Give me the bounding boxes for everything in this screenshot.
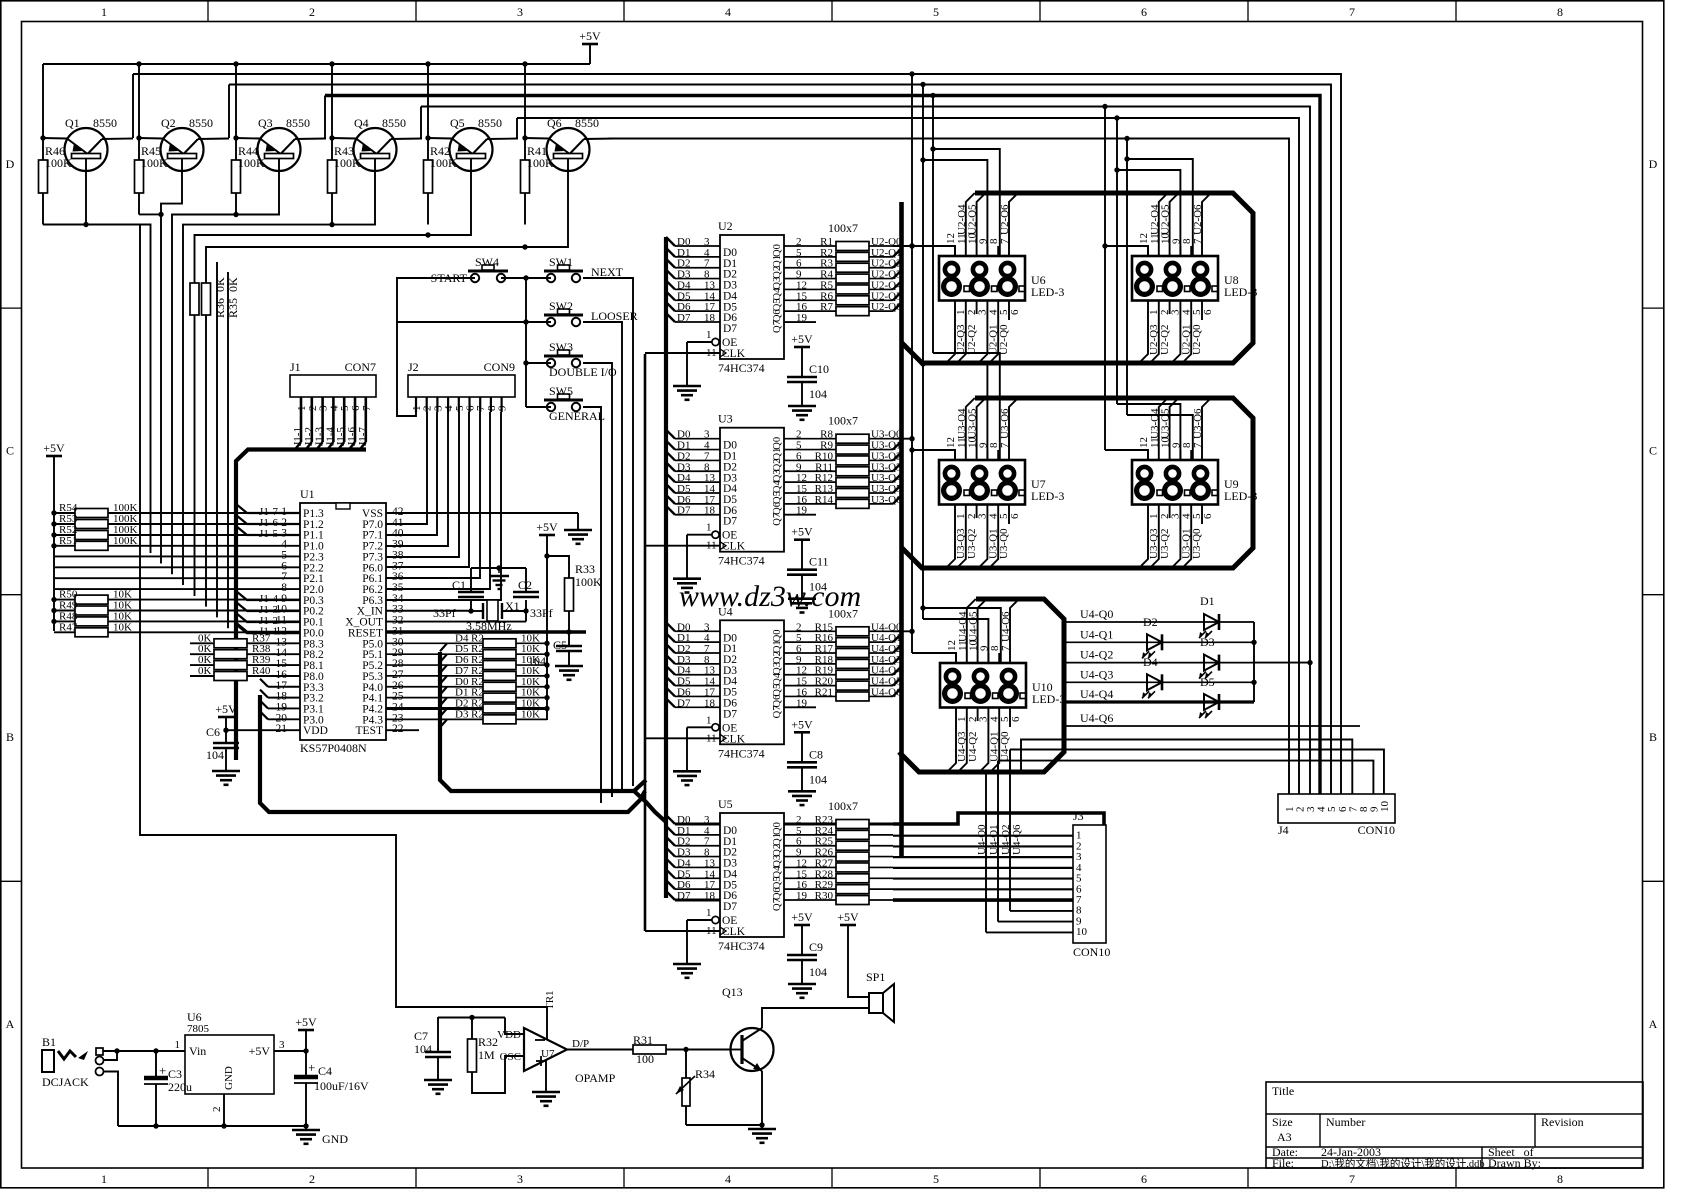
label U6 7805 b (187, 1023, 210, 1035)
IC U1 KS57P0408N body (300, 503, 386, 740)
label U3-Q5 net (871, 483, 902, 495)
wire Q13 collector (762, 1008, 869, 1028)
label U1 (300, 487, 315, 501)
label U3 pin 5 (796, 440, 802, 452)
wire U8 pin7 to ring (1202, 193, 1211, 256)
U5 pin name labels (723, 822, 783, 913)
label D5 (1200, 675, 1215, 689)
svg-text:CON10: CON10 (1358, 823, 1395, 837)
wire U5-Q2 to J3 pin2 (893, 845, 1073, 847)
wire U8 pin4 to ring (1171, 300, 1180, 363)
wire U5 Q7 + resistor R30 100 (784, 896, 893, 905)
wire U10 pin9 feed (923, 619, 988, 663)
resistor R2 10K row D2 (386, 704, 550, 713)
op-amp U7 OPAMP (524, 1028, 567, 1071)
svg-text:J1-5: J1-5 (259, 528, 278, 540)
svg-text:Q7: Q7 (772, 898, 783, 911)
svg-text:2: 2 (211, 1107, 223, 1113)
wire crystal top rail (471, 565, 526, 573)
resistor R35 0K (202, 283, 211, 315)
svg-text:100K: 100K (141, 156, 168, 170)
wire emitter feed Q5 (425, 61, 430, 140)
svg-text:+5V: +5V (837, 910, 859, 924)
pin J2-7 stub (475, 397, 487, 412)
power +5V speaker (837, 910, 869, 997)
label U6 7805 a (187, 1010, 202, 1024)
label 100x7 U3 (828, 414, 858, 428)
label U3 D2 (677, 450, 690, 462)
wire U5 CLK (645, 930, 720, 932)
svg-text:U1: U1 (300, 487, 315, 501)
U9 top pin numbers (1138, 437, 1204, 449)
label U2-Q4 net (871, 279, 902, 291)
wire U3 Q4 + resistor R12 100 (784, 474, 901, 487)
svg-text:C5: C5 (553, 638, 567, 652)
capacitor C4 100uF (294, 1051, 318, 1126)
label 100K R46 (45, 156, 72, 170)
label U5 D3 (677, 847, 691, 859)
svg-text:U2-Q5: U2-Q5 (967, 204, 979, 235)
wire J2 pin7 to U1 (386, 412, 480, 578)
resistor R44 100K (232, 138, 241, 215)
label R50 (59, 589, 78, 601)
svg-text:U4-Q2: U4-Q2 (1000, 824, 1012, 855)
wire U4-Q0 vertical (986, 772, 1073, 932)
label D D7 (455, 665, 469, 677)
wire U9 pin12 stub (1147, 450, 1149, 460)
wire U9 pin2 to ring (1150, 504, 1159, 568)
label U2 pin 18 (704, 312, 716, 324)
label U3 D4 (677, 472, 691, 484)
svg-text:18: 18 (704, 312, 716, 324)
svg-text:11: 11 (706, 347, 717, 359)
svg-text:Q6: Q6 (547, 116, 562, 130)
U8 bottom pin numbers (1148, 309, 1214, 315)
label U2 D7 (677, 312, 691, 324)
svg-text:U2-Q2: U2-Q2 (966, 324, 978, 355)
label U2 pin1 (706, 329, 712, 341)
svg-text:3: 3 (517, 1172, 523, 1186)
label U3 pin 9 (796, 461, 802, 473)
resistor R53 100K (51, 520, 300, 529)
U2 pin name labels (723, 244, 783, 335)
resistor R2 10K row D3 (386, 715, 547, 724)
label U5 pin 3 (704, 814, 710, 826)
svg-text:11: 11 (706, 540, 717, 552)
wire U5 D1 input (666, 826, 720, 835)
label U9 (1224, 477, 1239, 491)
svg-text:CON7: CON7 (345, 360, 376, 374)
label R9 (820, 440, 833, 452)
svg-text:R2: R2 (471, 708, 484, 720)
U8 top pin numbers (1138, 233, 1204, 245)
label U2 D2 (677, 258, 690, 270)
wire X_IN row (386, 610, 468, 612)
label U3 pin 4 (704, 440, 710, 452)
svg-text:Q4: Q4 (772, 865, 783, 879)
pin J1-1 stub (296, 397, 308, 442)
labels U6 bottom nets (955, 324, 1010, 355)
label U5 D6 (677, 879, 691, 891)
bus tap P3 row 4 (260, 690, 300, 698)
label U4 D2 (677, 643, 690, 655)
label U4 D1 (677, 632, 690, 644)
wire Q13 emitter (761, 1071, 763, 1125)
svg-text:Q3: Q3 (258, 116, 273, 130)
wire U10 pin3 stub (977, 707, 979, 721)
label U2 pin 3 (704, 236, 710, 248)
wire U3 Q5 + resistor R13 100 (784, 485, 901, 498)
label U4-Q3 (1080, 667, 1113, 681)
label U4 pin 7 (704, 643, 710, 655)
wire U9 pin1 to ring (1139, 504, 1148, 568)
LED display U10 LED-3 (940, 663, 1026, 708)
wire U9 pin4 to ring (1171, 504, 1180, 568)
svg-text:R14: R14 (815, 494, 834, 506)
label C6 104 (206, 748, 224, 762)
transistor Q5 8550 (428, 128, 518, 171)
wire U4 Q5 + resistor R20 100 (784, 678, 901, 691)
label U2 pin 7 (704, 258, 710, 270)
label U4 pin 6 (796, 643, 802, 655)
svg-text:Title: Title (1272, 1084, 1294, 1098)
svg-text:R21: R21 (815, 686, 833, 698)
capacitor C10 104 (787, 377, 817, 406)
wire U3 D7 input (666, 506, 720, 515)
pin J2-1 stub (411, 397, 423, 412)
wire U4 Q2 + resistor R17 100 (784, 645, 901, 658)
svg-text:NEXT: NEXT (591, 265, 624, 279)
label R43 (334, 144, 354, 158)
wire U5 Q2 + resistor R25 100 (784, 841, 893, 850)
switch SW2 LOOSER (397, 309, 583, 326)
pin J2-3 stub (432, 397, 444, 412)
resistor R2 10K row D0 (386, 682, 550, 691)
svg-text:File:: File: (1272, 1156, 1294, 1170)
label R2 5 (471, 687, 484, 699)
label U2 pin 9 (796, 269, 802, 281)
label Q3 (258, 116, 273, 130)
label 10K 5 (521, 687, 540, 699)
svg-text:GND: GND (223, 1066, 235, 1090)
svg-text:C3: C3 (168, 1067, 182, 1081)
svg-text:U3-Q6: U3-Q6 (999, 408, 1011, 439)
svg-text:D7: D7 (723, 708, 737, 720)
label U3-Q4 net (871, 472, 902, 484)
label R30 (815, 890, 834, 902)
labels U7 bottom nets (955, 528, 1010, 559)
wire U7 pin9 up (986, 450, 988, 460)
svg-text:C11: C11 (809, 555, 829, 569)
svg-text:U2-Q6: U2-Q6 (871, 301, 902, 313)
diode D2 (1142, 634, 1162, 658)
svg-text:U4-Q3: U4-Q3 (1080, 667, 1113, 681)
IC U2 74HC374 body (720, 235, 784, 359)
pin J2-4 stub (443, 397, 455, 412)
wire U3 D4 input (666, 473, 720, 482)
wire Q3 collector riser (324, 96, 326, 139)
label U2 pin 12 (796, 279, 807, 291)
label U4 D5 (677, 676, 691, 688)
label R6 (820, 290, 833, 302)
wire U10 pin1 to ring (947, 707, 956, 772)
svg-text:74HC374: 74HC374 (718, 939, 765, 953)
svg-text:CON10: CON10 (1073, 945, 1110, 959)
svg-text:U4-Q0: U4-Q0 (976, 824, 988, 855)
svg-text:OPAMP: OPAMP (575, 1071, 616, 1085)
wire U8 pin6 stub (1201, 300, 1203, 320)
wire U8 pin1 to ring (1139, 300, 1148, 363)
label J1 (290, 360, 301, 374)
wire U2 D2 input (666, 259, 720, 268)
svg-text:C2: C2 (518, 578, 532, 592)
U9 bottom pin numbers (1148, 513, 1214, 519)
transistor Q13 (731, 1028, 774, 1071)
switch SW4 START (468, 265, 526, 282)
transistor Q3 8550 (236, 128, 326, 171)
wire Q6 base net (206, 159, 568, 607)
label U4-Q2 (1080, 648, 1113, 662)
label 8550 Q1 (93, 116, 117, 130)
label 10K 0 (521, 632, 540, 644)
label LED-3 U10 (1032, 692, 1065, 706)
svg-text:R35 0K: R35 0K (226, 277, 240, 318)
svg-text:+5V: +5V (295, 1015, 317, 1029)
label U5 pin 9 (796, 847, 802, 859)
label 74HC374 U5 (718, 939, 765, 953)
switch SW5 GENERAL (526, 394, 583, 411)
label U4-Q1 v (988, 824, 1000, 855)
svg-text:Q4: Q4 (354, 116, 369, 130)
wire Q1 collector riser (132, 74, 134, 138)
label D2 (1143, 615, 1158, 629)
label U3 D0 (677, 429, 691, 441)
label R14 (815, 494, 834, 506)
wire U6 pin8 up (997, 246, 999, 256)
wire U9 pin8 up (1190, 450, 1192, 460)
wire U6 pin2 to ring (957, 300, 966, 363)
U2 CLK wedge (720, 349, 726, 357)
resistor R33 100K (547, 556, 574, 635)
label pin3 7805 (279, 1039, 285, 1051)
svg-text:C: C (6, 444, 14, 458)
label R12 (815, 472, 833, 484)
label J2 (408, 360, 419, 374)
wire U10 pin12 feed (912, 653, 956, 663)
wire U4 D7 input (666, 698, 720, 707)
label 74HC374 U4 (718, 746, 765, 760)
resistor R2 10K row D5 (386, 650, 550, 659)
wire U6 pin7 to ring (1009, 193, 1018, 256)
wire emitter feed Q6 (522, 61, 527, 140)
power +5V C11 (791, 525, 813, 570)
wire U4-Q1 vertical (998, 761, 1373, 922)
wire U10 pin8 up (998, 653, 1000, 663)
bus tap D bus D6 (440, 665, 447, 673)
wire U7 pin11 to ring (966, 398, 975, 460)
label OE U3 (722, 530, 737, 542)
wire U2 Q0 + resistor R1 100 (784, 242, 915, 251)
U1 left net labels J1-x (259, 506, 278, 638)
svg-text:D: D (6, 157, 15, 171)
wire U5 D7 input (666, 891, 720, 900)
svg-text:1: 1 (101, 5, 107, 19)
svg-text:KS57P0408N: KS57P0408N (300, 741, 367, 755)
wire U5 D0 input (666, 815, 720, 824)
label D D2 (455, 697, 468, 709)
wire feeder x1127 (1124, 136, 1129, 415)
label U4-Q1 (1080, 627, 1113, 641)
bus CLK vertical (644, 354, 647, 931)
connector J3 CON10 (1073, 825, 1106, 943)
label U4 D6 (677, 686, 691, 698)
power +5V C9 (791, 910, 813, 955)
svg-text:4: 4 (725, 5, 731, 19)
watermark www.dz3w.com (679, 580, 861, 613)
wire B1 low pin (104, 1072, 118, 1127)
svg-text:LED-3: LED-3 (1224, 489, 1257, 503)
wire U6 pin3 stub (976, 300, 978, 314)
label U3 pin 18 (704, 505, 716, 517)
label 0K R37 (198, 632, 212, 644)
svg-text:Vin: Vin (189, 1044, 206, 1058)
svg-text:Drawn By:: Drawn By: (1488, 1156, 1541, 1170)
label B1 (42, 1035, 56, 1049)
svg-text:U3-Q6: U3-Q6 (1192, 408, 1204, 439)
wire U3 D0 input (666, 430, 720, 439)
label U4 pin 12 (796, 665, 807, 677)
svg-text:R36 0K: R36 0K (213, 277, 227, 318)
label U3 pin 2 (796, 429, 802, 441)
wire U8 pin3 stub (1169, 300, 1171, 314)
svg-text:18: 18 (704, 505, 716, 517)
wire U5 Q5 + resistor R28 100 (784, 874, 893, 883)
svg-text:U4-Q6: U4-Q6 (1080, 711, 1113, 725)
IC U3 74HC374 body (720, 428, 784, 552)
wire U4-Q6 row (1064, 725, 1360, 727)
label 74HC374 U2 (718, 361, 765, 375)
svg-text:U5: U5 (718, 797, 733, 811)
wire U3 OE (687, 531, 719, 579)
svg-text:6: 6 (1010, 716, 1022, 722)
svg-text:3: 3 (517, 5, 523, 19)
wire U3 Q1 + resistor R9 100 (784, 442, 901, 455)
label pin2 7805 (211, 1107, 223, 1113)
svg-text:18: 18 (704, 890, 716, 902)
wire U7 pin2 to ring (957, 504, 966, 568)
label 100uF/16V C4 (314, 1079, 369, 1093)
label Q13 (722, 985, 743, 999)
wire U6 pin1 to ring (946, 300, 955, 363)
svg-text:U4-Q0: U4-Q0 (1080, 607, 1113, 621)
svg-text:SW3: SW3 (549, 340, 573, 354)
label U4-Q0 (1080, 607, 1113, 621)
label R2 3 (471, 665, 484, 677)
resistor R38 0K (190, 650, 300, 659)
label D D0 (455, 676, 469, 688)
svg-text:U4-Q1: U4-Q1 (988, 824, 1000, 855)
label U3 pin 3 (704, 429, 710, 441)
labels U6 top nets (956, 204, 1011, 235)
resistor R37 0K (190, 639, 300, 648)
wire U4-Q6 vertical to J4 pin7 (1021, 740, 1352, 795)
wire U5-Q3 to J3 pin3 (893, 856, 1073, 858)
wire U7 pin1 to ring (946, 504, 955, 568)
svg-text:100: 100 (636, 1052, 654, 1066)
diode D1 (1199, 614, 1219, 638)
svg-text:100K: 100K (113, 535, 138, 547)
capacitor C2 33Pf (513, 568, 539, 611)
pin J1-3 stub (318, 397, 330, 442)
wire U5-Q0 to J3 top (893, 813, 1104, 825)
svg-text:U3-Q2: U3-Q2 (966, 528, 978, 559)
label R5 (820, 279, 833, 291)
svg-text:2: 2 (309, 1172, 315, 1186)
label U3 pin 13 (704, 472, 716, 484)
label U3 pin 17 (704, 494, 716, 506)
svg-text:100x7: 100x7 (828, 414, 858, 428)
pin J2-6 stub (465, 397, 477, 412)
svg-text:6: 6 (1009, 309, 1021, 315)
label 33Pf C1 (433, 606, 456, 620)
svg-text:100K: 100K (45, 156, 72, 170)
label U5 pin 4 (704, 825, 710, 837)
bus tap D bus D5 (440, 654, 447, 662)
label U4 pin 17 (704, 686, 716, 698)
resistor R50 10K (51, 595, 300, 604)
label R8 (820, 429, 833, 441)
label U5 pin 16 (796, 879, 808, 891)
bus ring display group U7 U9 (902, 398, 1253, 568)
label U5 pin 8 (704, 847, 710, 859)
U3 pin name labels (723, 437, 783, 528)
power +5V R33 (536, 520, 558, 720)
wire VDD row (223, 728, 300, 733)
ground U5 OE (673, 964, 701, 978)
label OE U5 (722, 915, 737, 927)
svg-text:D3: D3 (1200, 635, 1215, 649)
svg-text:U7: U7 (541, 1048, 555, 1060)
svg-text:VDD: VDD (303, 725, 328, 737)
label U6 (1031, 273, 1046, 287)
svg-text:+5V: +5V (579, 29, 601, 43)
svg-text:B: B (1649, 730, 1657, 744)
label U3 pin11 (706, 540, 717, 552)
svg-text:10K: 10K (521, 708, 540, 720)
svg-text:Q7: Q7 (772, 320, 783, 333)
wire U3 Q3 + resistor R11 100 (784, 463, 901, 476)
svg-text:D/P: D/P (572, 1038, 589, 1050)
svg-text:Q4: Q4 (772, 672, 783, 686)
wire U4 D5 input (666, 677, 720, 686)
label 100K R52 (113, 524, 138, 536)
wire DOUBLE I/O return (583, 363, 612, 797)
label U4-Q0 v (976, 824, 988, 855)
resistor R32 1M (468, 1017, 525, 1093)
wire aux net b (227, 272, 229, 628)
wire emitter feed Q2 (136, 61, 141, 140)
wire emitter feed Q1 (40, 64, 45, 141)
label Q2 (161, 116, 176, 130)
svg-text:104: 104 (809, 580, 827, 594)
wire U8 pin8 up (1190, 246, 1192, 256)
svg-text:J1-7: J1-7 (357, 427, 369, 446)
label SW1 (549, 255, 573, 269)
svg-text:X1: X1 (505, 599, 520, 613)
svg-text:LED-3: LED-3 (1032, 692, 1065, 706)
label U4 D0 (677, 621, 691, 633)
pin J1-7 stub (361, 397, 373, 442)
